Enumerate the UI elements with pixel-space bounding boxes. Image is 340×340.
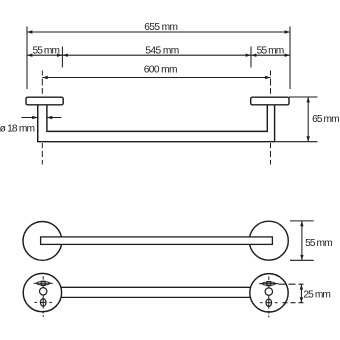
left wall plate (side view) [26,97,63,105]
left rosette (plan view) [23,273,61,311]
svg-text:ø 18 mm: ø 18 mm [0,124,35,135]
centerline vertical left rosette (plan) [42,276,44,317]
dimension 55 mm (front view height) [290,221,332,260]
centerline right post (top view) [270,71,272,165]
left rosette (front view) [23,222,62,261]
wall anchor wing right rosette [259,282,278,286]
towel bar tube (side view) [38,105,275,142]
screw left rosette [34,299,52,307]
extension line left (655/55) [26,27,28,90]
svg-text:545 mm: 545 mm [145,45,178,56]
mount hole right rosette [265,288,272,295]
mount hole left rosette [40,288,47,295]
screw right rosette [260,299,278,307]
right rosette (front view) [249,221,288,260]
dimension 25 mm (hole spacing) [279,284,331,303]
dimension chain 55/545/55 mm [27,45,290,67]
right rosette (plan view) [250,274,288,312]
svg-text:55 mm: 55 mm [32,46,59,57]
towel bar (front view) [41,237,273,245]
dimension 655 mm [27,22,290,34]
svg-text:655 mm: 655 mm [144,22,177,33]
wall anchor wing left rosette [34,281,53,285]
svg-text:55 mm: 55 mm [305,238,332,249]
centerline vertical right rosette (plan) [268,277,270,318]
extension line right (655/55) [289,27,291,90]
dimension dia 18 mm [0,116,61,135]
towel bar (plan view) [58,287,253,297]
svg-text:25 mm: 25 mm [303,290,330,301]
svg-text:55 mm: 55 mm [257,45,284,56]
svg-text:600 mm: 600 mm [144,65,177,76]
centerline left post (top view) [41,71,43,165]
svg-text:65 mm: 65 mm [312,114,339,125]
right wall plate (side view) [251,97,289,105]
dimension 600 mm [42,65,270,80]
dimension 65 mm [275,97,340,142]
